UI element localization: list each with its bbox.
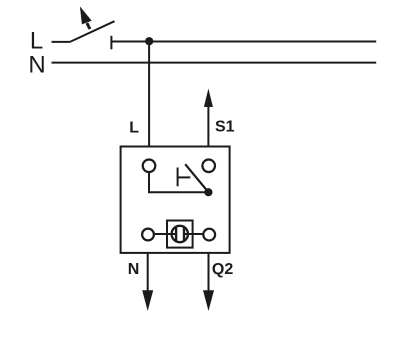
svg-text:N: N xyxy=(28,52,45,79)
svg-text:N: N xyxy=(128,261,140,278)
svg-text:S1: S1 xyxy=(215,119,235,136)
svg-text:Q2: Q2 xyxy=(212,261,233,278)
svg-text:L: L xyxy=(129,119,139,136)
